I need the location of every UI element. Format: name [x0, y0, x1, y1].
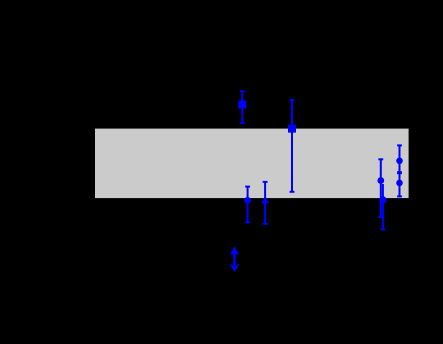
theory band — [95, 129, 409, 199]
data point P5 (circle, error bar) — [377, 159, 384, 217]
data point P7 (circle, error bar) — [396, 145, 403, 172]
data point P2 (square, long error bar) — [288, 100, 296, 192]
data point P3 (circle, error bar) — [244, 187, 251, 223]
data point P1 (square, error bar) — [238, 91, 246, 123]
data point P6 (circle, error bar) — [379, 184, 386, 229]
data point P4 (triangle-up, error bar) — [261, 182, 269, 224]
data point P8 (circle, error bar) — [396, 173, 403, 196]
double-headed arrow (off-scale indicator) — [229, 246, 240, 272]
